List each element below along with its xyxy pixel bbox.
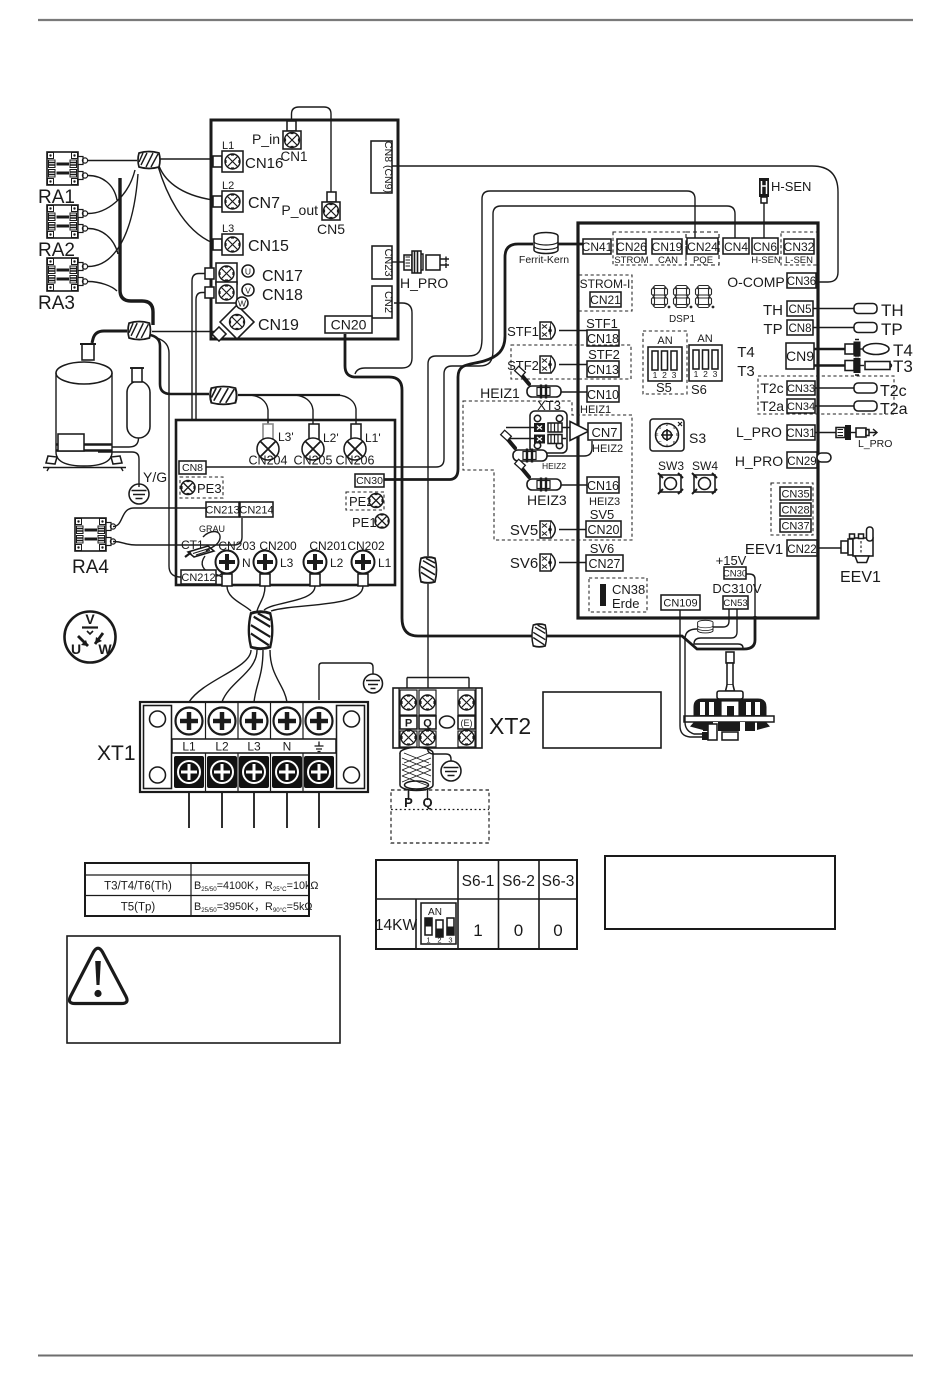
wire RA4 to CN214	[113, 518, 242, 545]
ferrite on XT2 feed (vertical)	[420, 557, 437, 583]
sensor H-SEN	[759, 178, 769, 197]
connector CN7 (main)	[570, 422, 589, 441]
high pressure switch H_PRO	[392, 261, 404, 263]
plug STF2	[540, 356, 555, 373]
svg-text:+15V: +15V	[716, 553, 747, 568]
sensor T2c	[815, 387, 854, 389]
wire RA2 top	[88, 170, 135, 214]
svg-text:PE3: PE3	[197, 481, 222, 496]
ferrite on +15V run	[532, 624, 547, 647]
svg-text:0: 0	[514, 921, 523, 940]
dashed group STROM-I	[579, 275, 632, 311]
connector CN7	[213, 196, 222, 207]
connector CN16	[213, 156, 222, 167]
main control board (right PCB)	[578, 223, 818, 618]
wire HEIZ1 to CN10	[561, 391, 587, 393]
connector CN13	[587, 361, 619, 377]
connector CN16 (main)	[587, 477, 619, 493]
plug SV6	[540, 554, 555, 571]
dip switch S5	[643, 331, 687, 394]
svg-text:CN7: CN7	[591, 425, 617, 440]
svg-text:CN26: CN26	[616, 240, 647, 254]
page bottom rule	[38, 1355, 913, 1357]
svg-text:CN19: CN19	[258, 317, 299, 334]
wire CN8(CN9) to CN36 O-COMP	[392, 166, 838, 282]
sensor T4	[814, 348, 845, 350]
connector CN18 (main)	[587, 330, 619, 346]
svg-text:CN32: CN32	[784, 240, 815, 254]
connector CN20	[325, 316, 372, 333]
svg-text:RA4: RA4	[72, 557, 109, 578]
svg-text:CN15: CN15	[248, 238, 289, 255]
wire XT3 feed bottom	[506, 438, 534, 440]
svg-text:CN1: CN1	[280, 149, 307, 164]
connector CN17 (U phase)	[205, 268, 214, 279]
wire ferrite to compressor nub	[92, 331, 127, 343]
wire main bundle to compressor ferrite	[120, 178, 153, 325]
svg-text:Ferrit-Kern: Ferrit-Kern	[519, 254, 569, 266]
svg-text:CN204: CN204	[249, 454, 288, 468]
svg-text:S6-2: S6-2	[502, 873, 535, 890]
svg-text:STROM: STROM	[614, 255, 648, 266]
connector CN4	[723, 238, 749, 254]
svg-text:HEIZ2: HEIZ2	[542, 461, 566, 471]
wire CN19 tail	[152, 331, 215, 333]
svg-text:CN36: CN36	[787, 276, 816, 288]
wire HEIZ3 to CN16	[561, 484, 587, 486]
wire RA3 top	[88, 174, 138, 267]
sensor T2a	[815, 405, 854, 407]
svg-text:S5: S5	[656, 380, 672, 395]
svg-text:S6: S6	[691, 382, 707, 397]
svg-text:CN16: CN16	[245, 155, 283, 172]
relay RA3	[47, 258, 88, 291]
svg-text:N: N	[242, 556, 251, 570]
dashed group L-SEN	[781, 232, 817, 265]
wire CT1 to CN203	[202, 556, 227, 584]
svg-text:SV6: SV6	[510, 555, 538, 572]
svg-text:O-COMP: O-COMP	[727, 274, 785, 290]
wire CN41 to filter CN30 (Ferrit-Kern lead)	[384, 244, 583, 480]
wire CN1 to CN5	[292, 107, 332, 192]
dashed indoor-unit box P Q	[391, 790, 489, 843]
ground (XT2 shield)	[441, 761, 461, 781]
svg-text:XT1: XT1	[97, 742, 136, 765]
wire CN24 to XT2 (PQE bus)	[428, 191, 695, 556]
svg-text:CN33: CN33	[787, 383, 815, 395]
svg-text:1: 1	[694, 369, 699, 379]
svg-text:L1: L1	[182, 740, 196, 754]
wire XT1 earth	[319, 663, 373, 700]
svg-text:L1': L1'	[365, 431, 381, 445]
svg-text:CN21: CN21	[590, 293, 621, 307]
svg-text:CN28: CN28	[781, 505, 809, 517]
svg-text:CN24: CN24	[687, 240, 718, 254]
svg-text:CN22: CN22	[787, 544, 816, 556]
svg-text:CN31: CN31	[786, 428, 815, 440]
svg-text:HEIZ1: HEIZ1	[480, 385, 520, 401]
wire ferrite to CN15	[158, 166, 213, 243]
svg-text:STF1: STF1	[507, 324, 539, 339]
svg-text:T3: T3	[893, 357, 913, 376]
relay RA2	[47, 205, 88, 238]
svg-text:PQE: PQE	[693, 255, 713, 266]
compressor body	[56, 362, 112, 384]
svg-text:T4: T4	[737, 344, 755, 361]
svg-text:CN29: CN29	[787, 456, 816, 468]
wires ferrite to XT1	[189, 650, 251, 702]
ferrite core (phase harness)	[210, 387, 236, 405]
svg-text:0: 0	[553, 921, 562, 940]
wire CN53 pair through ferrite	[713, 609, 729, 627]
svg-text:CN20: CN20	[588, 523, 620, 537]
svg-text:T2a: T2a	[880, 401, 908, 418]
svg-text:CN5: CN5	[788, 304, 811, 316]
connector CN32	[784, 239, 814, 254]
heater HEIZ2	[501, 430, 547, 462]
svg-text:CAN: CAN	[658, 255, 678, 266]
compressor feet and base	[46, 456, 122, 464]
accumulator	[127, 381, 150, 438]
wire CN18 down	[196, 293, 205, 420]
svg-text:L_PRO: L_PRO	[858, 438, 892, 450]
svg-text:Q: Q	[423, 718, 432, 730]
svg-text:TP: TP	[881, 320, 903, 339]
connector CN18 (V phase)	[205, 287, 214, 298]
svg-text:L2: L2	[215, 740, 229, 754]
svg-text:L3: L3	[247, 740, 261, 754]
wire GRAU loop	[203, 532, 220, 552]
pipe accumulator to compressor	[112, 438, 139, 447]
svg-text:CN41: CN41	[582, 240, 613, 254]
svg-text:RA3: RA3	[38, 293, 75, 314]
svg-text:CN38: CN38	[612, 582, 645, 597]
svg-text:CN205: CN205	[294, 454, 333, 468]
svg-text:CN8 (CN9): CN8 (CN9)	[382, 141, 394, 193]
connector CN19 (W phase, rotated)	[220, 305, 254, 339]
svg-text:CN30: CN30	[356, 475, 383, 487]
wire CN17 down	[192, 274, 205, 420]
dip switch icon in table	[421, 903, 456, 944]
svg-text:L3': L3'	[278, 430, 294, 444]
connector CN41	[583, 239, 611, 254]
svg-text:L3: L3	[280, 556, 294, 570]
svg-text:2: 2	[703, 369, 708, 379]
heater HEIZ1	[515, 366, 561, 398]
connector CN212	[181, 570, 216, 584]
svg-text:14KW: 14KW	[375, 917, 418, 934]
svg-text:3: 3	[448, 936, 452, 945]
connector CN204 L3'	[263, 424, 273, 440]
filter board (middle PCB)	[176, 420, 395, 585]
svg-text:STF1: STF1	[586, 316, 618, 331]
valve EEV1	[817, 547, 841, 549]
fan motor	[726, 652, 734, 663]
terminal block XT1	[140, 702, 368, 792]
empty notice rectangle (bottom right)	[605, 856, 835, 929]
svg-text:CN30: CN30	[723, 569, 747, 580]
XT1 top screws	[176, 708, 203, 735]
svg-text:Q: Q	[422, 795, 432, 810]
wire SV6 to CN27	[559, 562, 586, 564]
heater HEIZ3	[515, 459, 561, 491]
sensor T3	[814, 364, 845, 366]
svg-text:L1: L1	[378, 556, 392, 570]
svg-text:SV6: SV6	[590, 541, 615, 556]
svg-text:L-SEN: L-SEN	[785, 255, 813, 266]
terminal block XT2	[393, 688, 482, 748]
svg-text:SV5: SV5	[510, 522, 538, 539]
svg-text:TH: TH	[763, 302, 783, 319]
svg-text:H_PRO: H_PRO	[400, 275, 448, 291]
svg-text:L3: L3	[222, 223, 234, 235]
connector CN21	[590, 292, 621, 307]
wire CN20 to main board +15V	[345, 334, 755, 649]
empty info rectangle near XT2	[543, 692, 661, 748]
svg-text:CN19: CN19	[652, 240, 683, 254]
svg-text:H-SEN: H-SEN	[751, 255, 781, 266]
sensor TH	[813, 308, 854, 310]
svg-text:3: 3	[713, 369, 718, 379]
svg-text:N: N	[283, 740, 292, 754]
svg-text:Y/G: Y/G	[143, 469, 167, 485]
svg-text:T2c: T2c	[880, 383, 907, 400]
wire ferrite to CN7	[158, 163, 213, 200]
wire CN109 to fan motor	[680, 610, 702, 737]
svg-text:CN13: CN13	[587, 363, 619, 377]
svg-text:CN214: CN214	[239, 505, 273, 517]
svg-text:CN53: CN53	[723, 598, 747, 609]
svg-text:CN7: CN7	[248, 195, 280, 212]
svg-text:CN109: CN109	[663, 598, 697, 610]
wire harness to CN204/CN205/CN206 drops	[238, 394, 340, 396]
ground (XT1 chassis earth)	[364, 674, 383, 693]
wire compressor earth Y/G	[98, 452, 139, 484]
wire STF2 to CN13	[559, 364, 587, 366]
ferrite Ferrit-Kern	[534, 233, 558, 254]
wires filter board to ferrite	[227, 586, 251, 611]
wire XT3 feed top	[506, 427, 534, 429]
svg-text:U: U	[71, 641, 81, 657]
XT1 output stubs	[189, 792, 319, 828]
svg-text:CN213: CN213	[205, 505, 239, 517]
connector CN213	[206, 502, 239, 517]
warning triangle	[69, 948, 127, 1003]
connector CN109	[661, 595, 700, 610]
svg-text:T3: T3	[737, 363, 755, 380]
svg-text:P_in: P_in	[252, 131, 280, 147]
wire RA1 bottom to bundle	[88, 176, 117, 201]
connector CN2 (vertical)	[372, 286, 392, 318]
dashed group CN35/CN28/CN37	[771, 483, 813, 535]
svg-text:HEIZ2: HEIZ2	[592, 443, 623, 455]
XT1 label band L1 L2 L3 N earth	[172, 739, 336, 753]
ferrite on CN53 wires	[698, 620, 713, 633]
wire XT2 shield earth	[428, 748, 452, 762]
svg-text:AN: AN	[697, 333, 712, 345]
wire SV5 to CN20	[559, 529, 586, 531]
connector CN30 (filter board)	[355, 474, 384, 487]
wire STF1 to CN18	[559, 330, 587, 332]
svg-text:CN16: CN16	[587, 479, 619, 493]
svg-text:CN5: CN5	[317, 221, 345, 237]
svg-text:CN8: CN8	[788, 323, 811, 335]
svg-text:T5(Tp): T5(Tp)	[121, 902, 156, 914]
svg-text:H-SEN: H-SEN	[771, 179, 811, 194]
svg-text:DSP1: DSP1	[669, 314, 696, 325]
connector CN205 L2'	[309, 424, 319, 440]
svg-text:GRAU: GRAU	[199, 524, 225, 534]
connector CN26	[617, 239, 646, 254]
jumper CN38 Erde	[589, 578, 647, 612]
svg-text:TH: TH	[881, 301, 904, 320]
svg-text:S6-3: S6-3	[542, 873, 575, 890]
plug L_PRO	[815, 432, 836, 434]
svg-text:1: 1	[426, 936, 430, 945]
ferrite core (top, RA feed)	[138, 152, 160, 169]
svg-text:1: 1	[653, 370, 658, 380]
compressor label window	[58, 434, 84, 451]
connector CN24 PQE	[686, 232, 719, 265]
connector CN10	[587, 386, 619, 402]
fan connector elbow	[702, 732, 714, 740]
svg-text:Erde: Erde	[612, 596, 639, 611]
svg-text:CN10: CN10	[587, 388, 619, 402]
svg-text:(E): (E)	[461, 718, 473, 728]
connector CN23 (vertical)	[372, 246, 392, 279]
connector CN15	[213, 239, 222, 250]
svg-text:CN2: CN2	[382, 291, 394, 313]
svg-text:S3: S3	[689, 430, 706, 446]
svg-text:AN: AN	[428, 907, 442, 918]
svg-text:CN35: CN35	[781, 489, 809, 501]
svg-text:CN206: CN206	[336, 454, 375, 468]
wire H-SEN to CN6	[763, 203, 765, 238]
page top rule	[38, 19, 913, 21]
connector CN206 L1'	[351, 424, 361, 440]
svg-text:CN18: CN18	[587, 332, 619, 346]
svg-text:P_out: P_out	[281, 202, 318, 218]
svg-text:V: V	[85, 611, 95, 627]
svg-text:1: 1	[473, 921, 482, 940]
svg-text:SW4: SW4	[692, 459, 718, 473]
svg-text:SV5: SV5	[590, 507, 615, 522]
svg-text:L2': L2'	[323, 431, 339, 445]
svg-text:E: E	[655, 432, 658, 437]
power/filter board (top-left PCB)	[211, 120, 398, 339]
connector CN8(CN9) (vertical)	[371, 141, 392, 193]
svg-text:HEIZ3: HEIZ3	[527, 492, 567, 508]
wire CN4 to filter CN8	[206, 206, 735, 467]
S6 capacity table	[376, 860, 577, 949]
connector CN27	[586, 555, 623, 571]
dashed group STROM/CAN	[613, 232, 686, 265]
svg-text:SW3: SW3	[658, 459, 684, 473]
connector CN20 (main)	[586, 521, 621, 537]
svg-text:CN4: CN4	[724, 240, 748, 254]
wire CN2 join	[355, 303, 412, 374]
svg-text:H_PRO: H_PRO	[735, 453, 783, 469]
phase rotation indicator U V W	[65, 612, 116, 663]
dashed region XT3/HEIZ2/HEIZ3/SV5	[463, 401, 632, 540]
svg-text:HEIZ1: HEIZ1	[580, 404, 611, 416]
svg-text:XT2: XT2	[489, 713, 531, 739]
svg-text:W: W	[238, 299, 246, 309]
svg-text:P: P	[405, 718, 412, 730]
svg-text:CN6: CN6	[753, 240, 777, 254]
svg-text:CN8: CN8	[182, 462, 203, 474]
relay RA4	[75, 518, 116, 551]
sensor resistance table	[85, 863, 309, 916]
svg-text:W: W	[98, 641, 112, 657]
connector CN19	[652, 239, 682, 254]
svg-text:U: U	[245, 267, 251, 277]
wire RA4 to CN213	[113, 508, 206, 527]
svg-text:L1: L1	[222, 140, 234, 152]
PE2 earth	[346, 492, 384, 510]
warning notice box	[67, 936, 340, 1043]
svg-text:EEV1: EEV1	[745, 541, 783, 558]
XT1 bottom screws	[174, 756, 334, 788]
connector CN6 H-SEN	[752, 238, 778, 254]
svg-text:2: 2	[437, 936, 441, 945]
svg-text:2: 2	[662, 370, 667, 380]
wire XT3 to CN7 chevron	[562, 428, 570, 439]
compressor terminal nub	[82, 344, 94, 360]
svg-text:L2: L2	[222, 180, 234, 192]
wire lead continuations	[268, 420, 356, 426]
svg-text:T3/T4/T6(Th): T3/T4/T6(Th)	[104, 881, 172, 893]
svg-text:AN: AN	[657, 335, 672, 347]
wire compressor protector to CN212	[157, 338, 182, 577]
shielded cable under XT2	[409, 747, 428, 800]
wire CN212 hook	[216, 566, 222, 576]
wire ferrite to phase harness	[150, 335, 209, 394]
display DSP1	[652, 286, 671, 309]
dashed group T2c/T2a	[758, 376, 894, 414]
svg-text:L2: L2	[330, 556, 344, 570]
svg-text:CN212: CN212	[181, 572, 215, 584]
rotary switch S3	[650, 419, 684, 451]
plug SV5	[540, 521, 555, 538]
svg-text:T2a: T2a	[760, 398, 784, 414]
svg-text:CN27: CN27	[589, 557, 621, 571]
svg-text:CN37: CN37	[781, 521, 809, 533]
dashed group STF2	[511, 345, 631, 379]
connector CN8 (filter board)	[179, 461, 206, 474]
svg-text:V: V	[245, 286, 251, 296]
ferrite power bundle (vertical)	[249, 612, 272, 649]
svg-text:CN20: CN20	[331, 317, 367, 333]
svg-text:S6-1: S6-1	[462, 873, 495, 890]
connector CN214	[240, 502, 273, 517]
PE3 earth	[180, 477, 223, 498]
svg-text:A: A	[665, 443, 668, 448]
relay RA1	[47, 152, 88, 185]
wire RA2 bottom to bundle	[88, 229, 118, 255]
ferrite core (compressor feed)	[128, 322, 150, 340]
svg-text:STROM-I: STROM-I	[580, 277, 631, 291]
svg-text:3: 3	[672, 370, 677, 380]
svg-text:T2c: T2c	[760, 380, 783, 396]
svg-text:CN18: CN18	[262, 287, 303, 304]
wire RA3 bottom to bundle	[88, 282, 117, 292]
svg-text:CN34: CN34	[787, 401, 815, 413]
svg-text:P: P	[404, 795, 413, 810]
svg-text:EEV1: EEV1	[840, 569, 881, 586]
svg-text:STF2: STF2	[588, 347, 620, 362]
svg-text:CN9: CN9	[786, 348, 814, 364]
